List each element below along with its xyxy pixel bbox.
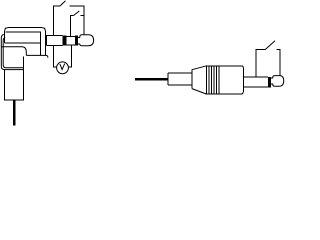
elbow leg right edge	[22, 56, 24, 69]
wire: sleeve contact rail (left vertical of outer switch loop)	[54, 6, 60, 36]
handle body outline	[207, 66, 244, 94]
ring section	[67, 36, 75, 45]
strain relief neck	[168, 73, 192, 85]
wire: outer loop top and tip contact rail	[70, 6, 85, 35]
tip neck (right plug)	[271, 78, 273, 84]
switch S2 blade (inner loop, open switch diagonal)	[74, 11, 80, 16]
plug body barrel (outer outline with right edge down to chin)	[5, 28, 46, 56]
tip (rounded)	[80, 35, 94, 46]
flare bottom edge	[192, 89, 207, 95]
chin bottom edge with hook	[26, 55, 48, 57]
grip ridge lines	[209, 66, 219, 94]
wire: meter lead from ring	[68, 45, 71, 67]
plug body barrel bottom edge	[5, 42, 41, 44]
wire: ring contact rail (inner loop left vertical)	[71, 16, 74, 37]
flare top edge	[192, 66, 207, 70]
elbow leg outer outline	[1, 34, 24, 69]
elbow leg inner outline	[3, 37, 23, 67]
insulator band 1 (black)	[63, 35, 67, 45]
flare left edge	[191, 70, 193, 89]
plug body bevel line (inner top)	[6, 32, 41, 55]
cable (right figure)	[135, 78, 168, 81]
wire: inner loop top right segment	[81, 15, 85, 17]
shaft sleeve (right plug)	[243, 77, 268, 87]
cable	[13, 100, 16, 126]
wire: meter lead from sleeve	[54, 45, 57, 67]
switch S3 blade (open switch diagonal, right figure)	[265, 41, 275, 50]
insulator band (black)	[268, 77, 271, 88]
tip neck	[78, 37, 80, 44]
tip (right plug, rounded)	[273, 76, 284, 87]
wire: sleeve contact rail (right figure)	[256, 50, 265, 77]
cable boot	[5, 70, 24, 101]
wire: tip contact rail (right figure)	[277, 50, 280, 76]
voltmeter letter v	[60, 64, 65, 70]
insulator band 2 (black)	[75, 35, 78, 45]
elbow leg top edge curving into chin	[1, 47, 26, 56]
switch S1 blade (outer loop, open switch diagonal)	[60, 1, 66, 6]
voltmeter V (circle)	[57, 62, 69, 74]
shaft sleeve	[47, 36, 63, 46]
